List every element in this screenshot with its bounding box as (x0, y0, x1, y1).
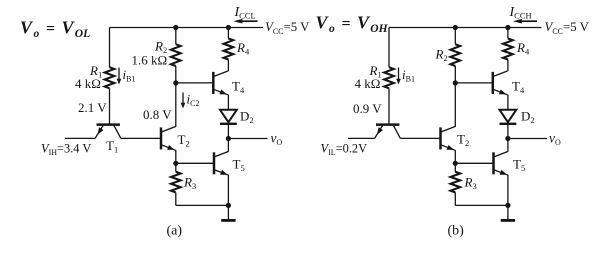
wire node to T2 collector (454, 83, 456, 127)
svg-text:R3: R3 (464, 175, 477, 192)
wire rail to R4 (507, 28, 509, 39)
wire bottom (455, 204, 508, 206)
wire node to T4 base (176, 82, 214, 84)
svg-text:R4: R4 (516, 40, 530, 57)
wire D2 to output node (507, 125, 509, 139)
wire R3 top (454, 163, 456, 172)
wire node to T4 base (455, 82, 493, 84)
svg-text:T5: T5 (233, 157, 245, 173)
svg-text:VIL=0.2V: VIL=0.2V (321, 142, 368, 158)
transistor T4 (493, 71, 508, 95)
svg-text:T1: T1 (106, 138, 118, 154)
wire node to T5 base (455, 162, 493, 164)
wire rail to R4 (227, 28, 229, 39)
output node (505, 136, 510, 141)
resistor R4 (224, 39, 234, 60)
current arrow IccL (233, 19, 257, 24)
wire node to T5 base (176, 162, 214, 164)
wire D2 to output node (227, 125, 229, 139)
node T2-R3-T5 (453, 161, 458, 166)
svg-text:0.8 V: 0.8 V (143, 107, 172, 122)
transistor T2 (441, 127, 456, 151)
Vcc supply rail (389, 27, 541, 29)
transistor T1 (95, 125, 121, 139)
svg-text:1.6 kΩ: 1.6 kΩ (132, 53, 168, 68)
node emitter-ground (505, 203, 510, 208)
svg-text:(b): (b) (448, 224, 465, 239)
Vcc supply rail (110, 27, 264, 29)
node emitter-ground (226, 203, 231, 208)
wire R4 to T4 collector (507, 60, 509, 72)
wire rail to R2 (175, 28, 177, 45)
node rail-R2 (453, 25, 458, 30)
diode D2 (500, 110, 517, 124)
wire T5 emitter down (507, 175, 509, 205)
svg-text:T2: T2 (178, 132, 190, 148)
diode D2 (220, 110, 237, 124)
resistor R4 (503, 39, 513, 60)
wire node to T2 collector (175, 83, 177, 127)
wire R3 bottom (454, 192, 456, 205)
svg-text:T5: T5 (513, 157, 525, 173)
wire R4 to T4 collector (227, 60, 229, 72)
svg-text:Vo=VOH: Vo=VOH (316, 13, 389, 36)
ground (221, 205, 235, 220)
node rail-R2 (173, 25, 178, 30)
wire T2 emitter down (175, 150, 177, 163)
svg-text:vO: vO (271, 131, 283, 147)
svg-text:0.9 V: 0.9 V (353, 101, 382, 116)
wire T1 collector to T2 base (400, 137, 440, 139)
wire T1 collector to T2 base (121, 137, 161, 139)
wire T2 emitter down (454, 150, 456, 163)
wire T4 emitter to D2 (227, 95, 229, 110)
svg-text:VCC=5 V: VCC=5 V (545, 20, 590, 36)
svg-text:2.1 V: 2.1 V (78, 100, 107, 115)
wire rail to R2 (454, 28, 456, 45)
resistor R1 (384, 67, 394, 88)
wire output (228, 138, 267, 140)
svg-text:R4: R4 (236, 40, 250, 57)
ground (501, 205, 515, 220)
svg-text:iC2: iC2 (187, 92, 200, 108)
wire R2 to node (454, 66, 456, 83)
transistor T2 (161, 127, 176, 151)
svg-text:R2: R2 (435, 47, 448, 64)
wire T4 emitter to D2 (507, 95, 509, 110)
wire input to T1 emitter (348, 137, 375, 139)
current arrow iC2 (181, 93, 186, 109)
svg-text:4 kΩ: 4 kΩ (75, 76, 101, 91)
svg-text:iB1: iB1 (123, 67, 136, 83)
transistor T5 (214, 151, 229, 175)
resistor R2 (451, 44, 461, 66)
wire rail to R1 (109, 28, 111, 68)
svg-text:4 kΩ: 4 kΩ (355, 76, 381, 91)
wire input to T1 emitter (65, 137, 95, 139)
node R2-T2-T4 (173, 80, 178, 85)
node rail-R4 (505, 25, 510, 30)
wire rail to R1 (388, 28, 390, 68)
node T2-R3-T5 (173, 161, 178, 166)
svg-text:VIH=3.4 V: VIH=3.4 V (41, 142, 91, 158)
output node (226, 136, 231, 141)
transistor T5 (494, 151, 509, 175)
transistor T1 (375, 125, 401, 139)
svg-text:D2: D2 (240, 109, 254, 125)
current arrow IccH (513, 19, 537, 24)
svg-text:VCC=5 V: VCC=5 V (265, 20, 310, 36)
wire R2 to node (175, 66, 177, 83)
node R2-T2-T4 (453, 80, 458, 85)
svg-text:T4: T4 (232, 79, 245, 95)
wire T5 collector to output node (507, 139, 509, 152)
current arrow iB1 (117, 68, 122, 85)
wire T5 collector to output node (227, 139, 229, 152)
svg-text:R3: R3 (183, 175, 196, 192)
svg-text:ICCL: ICCL (234, 5, 256, 21)
wire R1 to T1 base (388, 88, 390, 124)
svg-text:Vo=VOL: Vo=VOL (20, 18, 90, 41)
wire R3 top (175, 163, 177, 172)
current arrow iB1 (b) (396, 68, 401, 85)
wire R1 to T1 base (109, 88, 111, 124)
transistor T4 (213, 71, 228, 95)
node rail-R4 (226, 25, 231, 30)
svg-text:T4: T4 (512, 79, 525, 95)
wire R3 bottom (175, 192, 177, 205)
wire bottom (176, 204, 229, 206)
svg-text:(a): (a) (167, 224, 183, 239)
svg-text:ICCH: ICCH (509, 5, 532, 21)
svg-text:D2: D2 (521, 109, 535, 125)
resistor R2 (171, 44, 181, 66)
wire T5 emitter down (227, 175, 229, 205)
resistor R3 (451, 172, 461, 193)
wire output (508, 138, 547, 140)
resistor R3 (171, 172, 181, 193)
svg-text:vO: vO (549, 131, 561, 147)
resistor R1 (105, 67, 115, 88)
svg-text:T2: T2 (457, 132, 469, 148)
svg-text:iB1: iB1 (402, 67, 415, 83)
